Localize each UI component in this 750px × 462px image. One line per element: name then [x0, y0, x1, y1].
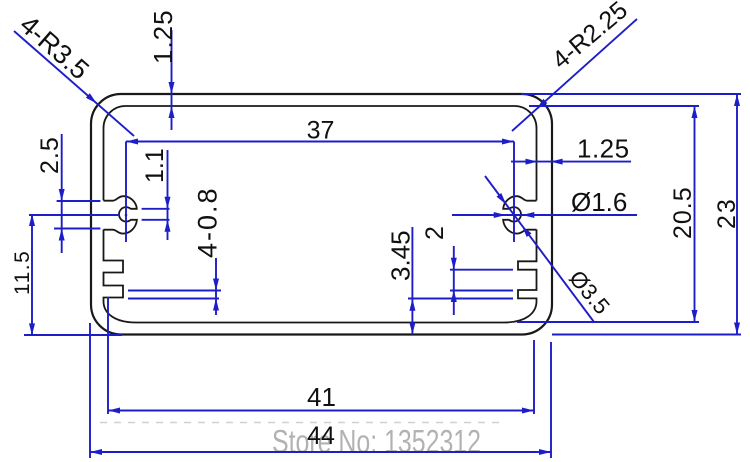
- svg-text:41: 41: [307, 382, 336, 412]
- svg-text:20.5: 20.5: [669, 186, 697, 239]
- svg-text:Ø1.6: Ø1.6: [571, 187, 627, 217]
- svg-text:23: 23: [713, 197, 741, 229]
- svg-text:1.25: 1.25: [148, 9, 178, 64]
- svg-text:44: 44: [307, 422, 335, 450]
- svg-text:2.5: 2.5: [36, 136, 64, 174]
- svg-text:1.1: 1.1: [141, 148, 169, 183]
- svg-text:Store No: 1352312: Store No: 1352312: [272, 424, 481, 460]
- svg-text:3.45: 3.45: [386, 230, 416, 281]
- svg-text:2: 2: [421, 226, 449, 240]
- svg-text:4-0.8: 4-0.8: [193, 186, 223, 258]
- svg-text:1.25: 1.25: [577, 134, 630, 164]
- svg-text:37: 37: [307, 117, 335, 145]
- svg-text:11.5: 11.5: [11, 250, 34, 295]
